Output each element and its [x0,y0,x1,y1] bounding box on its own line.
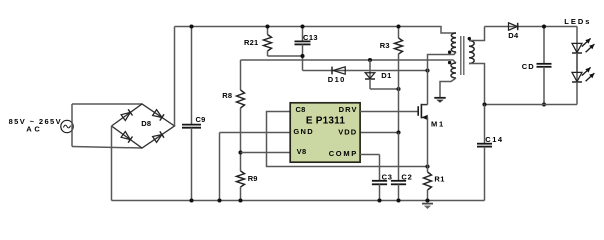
wire AC top line [72,103,142,105]
wire LED string bottom [576,82,578,105]
diode D1 [365,60,392,89]
wire source to sense [427,117,429,166]
wire AC bottom line [72,147,142,149]
svg-text:C14: C14 [485,135,503,144]
junction VDD pin node [396,130,400,134]
resistor R9 [237,171,258,201]
svg-text:AC: AC [26,124,42,133]
wire secondary top [485,26,578,28]
ground main [422,204,433,209]
svg-text:D8: D8 [141,119,151,128]
capacitor C2 [391,133,413,201]
wire bottom rail GND [112,200,485,202]
transformer T1 core [461,36,464,75]
diode D10 [328,67,346,84]
node primary phase dot [448,51,451,54]
junction CD top [542,24,546,28]
junction D1 VDD node [396,87,400,91]
resistor R8 [222,60,244,108]
capacitor C14 [477,105,504,201]
svg-text:C3: C3 [382,172,393,181]
resistor R21 [244,27,272,57]
junction CD bottom [542,102,546,106]
ground aux winding [434,98,445,103]
junction C3 bottom rail [377,198,381,202]
wire DRV to gate [360,111,418,113]
wire VDD pin [360,132,399,134]
svg-text:D10: D10 [328,75,346,84]
junction C9 top rail [189,24,193,28]
wire GND drop [219,133,221,201]
transformer T1 primary winding [451,33,456,52]
wire LED string through [576,43,578,82]
wire aux winding line [241,60,457,63]
svg-text:D4: D4 [508,31,519,40]
label LEDs [564,17,591,26]
wire D1 to VDD node [370,88,399,90]
svg-text:R3: R3 [380,41,390,50]
svg-text:D1: D1 [381,71,392,80]
svg-text:C9: C9 [196,115,206,124]
svg-text:R21: R21 [244,38,258,47]
node aux phase dot [448,61,451,64]
svg-text:LEDs: LEDs [564,17,591,26]
svg-text:C8: C8 [296,105,306,114]
wire GND pin [220,132,291,134]
svg-text:R9: R9 [248,174,258,183]
junction C13 top rail [300,24,304,28]
junction CS sense R1 [425,164,429,168]
resistor R3 [380,27,403,90]
svg-text:C2: C2 [401,172,412,181]
junction C9 bottom rail [189,198,193,202]
wire top rail VIN+ [175,27,457,34]
junction D10 drain node [425,68,429,72]
capacitor C13 [295,27,318,57]
svg-text:E P1311: E P1311 [306,116,345,127]
wire snubber to drain [303,70,428,72]
svg-text:R8: R8 [222,91,232,100]
junction R1 bottom rail [425,198,429,202]
wire VS pin [241,152,291,154]
wire LED1 to LED2 [576,53,578,72]
capacitor C3 [372,155,393,201]
capacitor C9 [182,27,206,201]
wire bridge DC+ riser [174,27,176,127]
svg-text:VDD: VDD [338,128,357,137]
junction GND drop rail [217,198,221,202]
wire CS sense [267,112,428,167]
label 85V ~ 265V [9,117,62,126]
junction secondary return C14 [482,102,486,106]
junction snubber node [300,54,304,58]
wire VDD node vertical [398,89,400,133]
bridge rectifier D8 [112,104,175,148]
LED LED2 [572,67,594,82]
svg-text:R1: R1 [434,174,445,183]
svg-text:C13: C13 [303,33,318,42]
node secondary phase dot [468,37,471,40]
svg-text:COMP: COMP [329,149,358,158]
diode D4 [508,23,519,40]
svg-text:DRV: DRV [339,105,358,114]
svg-text:V8: V8 [297,147,307,156]
wire AC left side [71,104,73,147]
wire LED string top [576,27,578,44]
wire output return [485,104,578,106]
svg-text:M1: M1 [431,119,445,128]
capacitor CD [522,27,552,105]
junction R9 bottom rail [238,198,242,202]
wire R8 to R9 [240,108,242,171]
transformer T1 secondary winding [469,27,485,105]
transistor M1 MOSFET [418,104,445,129]
junction D1 anode [368,58,372,62]
junction R3 top rail [396,24,400,28]
op-amp U1 EP1311 controller [290,103,360,162]
transformer T1 aux winding [440,63,456,97]
wire drain to primary [428,52,457,105]
junction C2 bottom rail [396,198,400,202]
wire bridge DC- drop [111,126,113,201]
junction R21 top rail [265,24,269,28]
svg-text:CD: CD [522,62,535,71]
LED LED1 [572,38,594,53]
junction VS tap [238,150,242,154]
wire snubber bottom [268,56,303,71]
AC source V1 85V-265V AC [61,120,73,132]
label AC [26,124,42,133]
wire COMP pin [360,154,380,156]
svg-text:GND: GND [293,127,314,136]
resistor R1 [424,167,445,201]
